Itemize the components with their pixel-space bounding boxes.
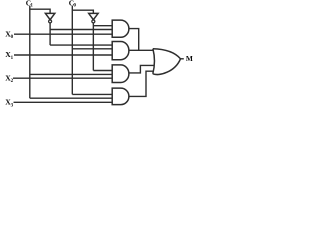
wire c0' to gate1 input xyxy=(93,25,112,27)
wire gate3 output to OR xyxy=(129,65,154,73)
and-gate G3 xyxy=(112,65,129,83)
wire c1' vertical drop xyxy=(49,23,51,45)
svg-text:1: 1 xyxy=(11,56,14,61)
or-gate U3 xyxy=(153,49,181,75)
wire x3 data line xyxy=(14,101,113,103)
wire x1 data line xyxy=(14,54,112,56)
wire c1' to gate1 input xyxy=(50,29,112,31)
wire OR output to M xyxy=(181,58,184,60)
node x3 label xyxy=(5,98,13,109)
svg-text:2: 2 xyxy=(11,79,14,84)
and-gate G4 xyxy=(112,88,129,105)
node C0 label xyxy=(69,0,77,9)
wire c0 branch to inverter U2 xyxy=(72,10,93,13)
inverter U2 bubble xyxy=(92,20,95,23)
node C1 label xyxy=(26,0,34,9)
inverter U1 bubble xyxy=(49,20,52,23)
wire c0' to gate3 input xyxy=(93,70,112,72)
wire c1 to gate4 input xyxy=(30,97,112,99)
wire c1 branch to inverter U1 xyxy=(29,9,50,13)
wire c0 to gate4 input xyxy=(72,93,112,95)
wire c0 to gate2 input xyxy=(72,48,112,50)
wire x2 data line xyxy=(13,77,112,79)
and-gate G2 xyxy=(112,42,129,60)
svg-text:1: 1 xyxy=(31,4,34,9)
wire c0' vertical drop xyxy=(92,23,94,71)
svg-text:M: M xyxy=(186,54,193,63)
node x2 label xyxy=(5,73,13,84)
wire c0 rail vertical xyxy=(71,6,73,94)
wire c1 to gate3 input xyxy=(30,73,112,75)
svg-text:3: 3 xyxy=(11,103,14,108)
node x0 label xyxy=(5,29,13,40)
svg-text:0: 0 xyxy=(11,35,14,40)
inverter U1 triangle xyxy=(45,13,54,19)
wire c1 rail vertical xyxy=(29,6,31,98)
wire gate1 output to OR xyxy=(129,29,139,51)
svg-text:0: 0 xyxy=(74,4,77,9)
and-gate G1 xyxy=(112,20,129,37)
wire x0 data line xyxy=(14,33,112,35)
node x1 label xyxy=(5,50,13,61)
inverter U2 triangle xyxy=(89,13,98,19)
wire c1' to gate2 input xyxy=(50,44,112,46)
wire gate4 output to OR xyxy=(129,71,154,96)
wire gate2 output to OR xyxy=(129,49,153,51)
